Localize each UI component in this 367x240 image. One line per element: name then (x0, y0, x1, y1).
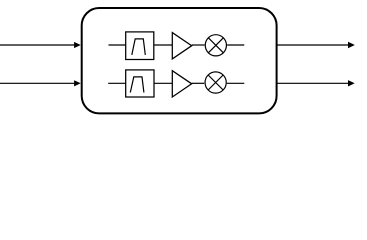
output arrow 2 head (348, 80, 355, 86)
wire: stub to filter F2 (108, 82, 126, 84)
wire: output 2 shaft (277, 82, 349, 84)
wire: A1 to mixer M1 (192, 44, 205, 46)
wire: stub to filter F1 (109, 44, 126, 46)
filter F1 bandpass glyph (132, 39, 146, 55)
mixer M2 circle (205, 72, 226, 93)
output arrow 1 head (348, 42, 355, 48)
wire: F2 to amplifier A2 (154, 82, 172, 84)
wire: F1 to amplifier A1 (154, 44, 173, 46)
amplifier A1 triangle (172, 33, 191, 59)
system block (rounded rectangle) (82, 8, 277, 113)
wire: M1 output stub (227, 44, 244, 46)
filter F1 box (126, 32, 154, 60)
wire: input 1 shaft (0, 44, 76, 46)
mixer M1 X (208, 38, 223, 53)
amplifier A2 triangle (172, 71, 191, 97)
wire: M2 output stub (227, 82, 245, 84)
mixer M2 X (208, 75, 223, 90)
wire: input 2 shaft (0, 82, 76, 84)
filter F2 box (126, 70, 154, 97)
mixer M1 circle (205, 35, 226, 56)
input arrow 1 head (74, 42, 81, 48)
input arrow 2 head (74, 80, 81, 86)
wire: output 1 shaft (277, 44, 349, 46)
wire: A2 to mixer M2 (192, 82, 205, 84)
filter F2 bandpass glyph (130, 77, 144, 93)
